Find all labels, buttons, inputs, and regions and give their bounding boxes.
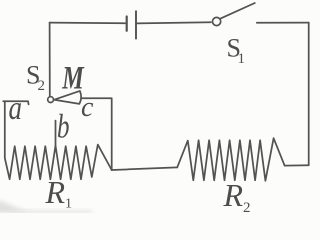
svg-text:b: b xyxy=(57,109,70,146)
svg-text:2: 2 xyxy=(38,78,46,94)
contact b wire down to R1 xyxy=(55,121,57,147)
wire right vertical xyxy=(308,23,310,166)
switch S2 wiper arm M (triangle) xyxy=(54,91,81,104)
switch S2 pivot circle xyxy=(48,97,54,103)
wire top-left horizontal (node to battery) xyxy=(50,22,126,25)
svg-text:M: M xyxy=(62,60,85,96)
svg-text:c: c xyxy=(81,92,94,123)
svg-text:1: 1 xyxy=(65,197,72,212)
wire battery to switch S1 xyxy=(137,22,211,23)
resistor R2 zigzag xyxy=(177,138,284,181)
wire S1 to top-right corner xyxy=(257,22,309,24)
scan smudge bottom-left corner xyxy=(0,199,30,213)
svg-text:1: 1 xyxy=(238,51,246,67)
battery cell short plate (negative) xyxy=(126,17,128,31)
battery cell long plate (positive) xyxy=(135,11,137,38)
switch S1 lever (open) xyxy=(221,3,255,18)
switch S1 pivot circle xyxy=(213,17,221,25)
wire R2 to bottom junction xyxy=(112,167,178,170)
scan smudge bottom band xyxy=(12,210,92,214)
svg-text:R: R xyxy=(45,174,66,210)
wire S2 feed vertical xyxy=(49,23,51,97)
resistor R1 zigzag xyxy=(5,145,112,180)
svg-text:2: 2 xyxy=(243,200,251,213)
contact a (L-shaped: horizontal pad and wire down to R1 left end) xyxy=(3,101,28,104)
wire bottom-right to R2 xyxy=(285,164,309,166)
svg-text:a: a xyxy=(9,90,23,127)
wire contact a down to R1 xyxy=(4,101,6,158)
wire contact c down to bottom junction xyxy=(82,98,112,170)
svg-text:R: R xyxy=(223,177,244,213)
